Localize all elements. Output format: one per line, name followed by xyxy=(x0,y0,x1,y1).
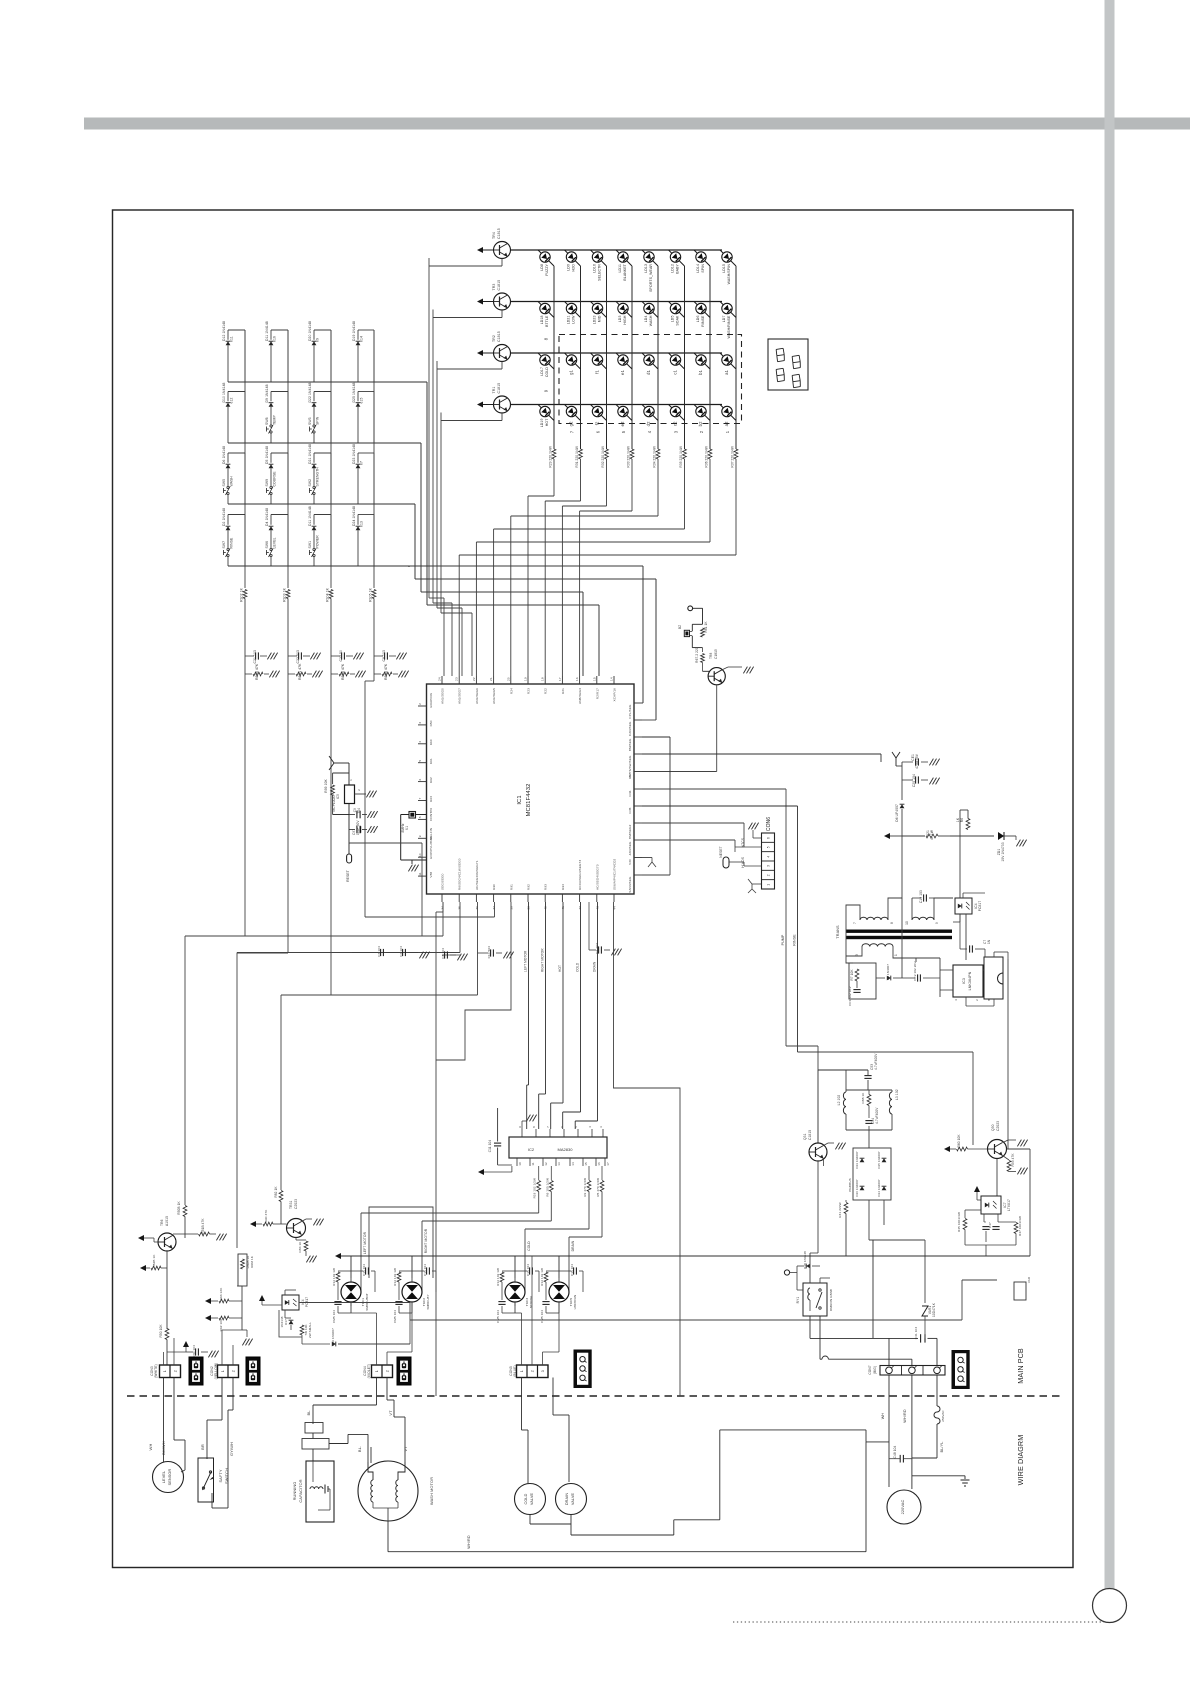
TR6 emitter down xyxy=(166,1251,168,1329)
resistor R41 22 2W xyxy=(845,1200,847,1202)
svg-text:R12 102 1W: R12 102 1W xyxy=(393,1268,397,1286)
svg-text:13: 13 xyxy=(557,1162,561,1166)
trunk wires from key columns under IC1 xyxy=(185,935,443,937)
svg-text:R92: R92 xyxy=(527,884,531,890)
diode D6 UF4007 xyxy=(901,780,903,800)
svg-text:WASH: WASH xyxy=(649,315,653,326)
svg-text:R83B 47K: R83B 47K xyxy=(384,663,388,680)
svg-text:D20 1N4148: D20 1N4148 xyxy=(308,321,312,341)
arrows with resistors R63 R62 xyxy=(205,1298,211,1304)
resistor R99 10K pullup loop xyxy=(333,772,349,774)
svg-text:f1: f1 xyxy=(595,369,600,373)
svg-text:JAN/SEG: JAN/SEG xyxy=(628,841,632,855)
svg-text:R36 220 1/4W: R36 220 1/4W xyxy=(705,446,709,468)
varistor lead join xyxy=(872,1240,874,1338)
svg-text:3: 3 xyxy=(418,722,422,724)
svg-text:R303 1K: R303 1K xyxy=(283,587,287,602)
LED driver transistor TR4 xyxy=(477,247,483,253)
IC2 bottom pin 14 xyxy=(569,1158,571,1166)
svg-text:R62: R62 xyxy=(429,777,433,783)
svg-text:SW6: SW6 xyxy=(265,541,269,549)
svg-text:21: 21 xyxy=(489,677,493,681)
IC2 bottom pin 10 xyxy=(516,1158,518,1166)
key cell diode D4 1N4148 row4 col2 xyxy=(271,514,288,516)
svg-text:TEMP: TEMP xyxy=(273,415,277,425)
svg-text:MAIN PCB: MAIN PCB xyxy=(1016,1348,1025,1384)
svg-text:Q31: Q31 xyxy=(803,1133,807,1140)
svg-text:SPIN: SPIN xyxy=(316,416,320,425)
svg-text:R80N 47K: R80N 47K xyxy=(298,663,302,680)
svg-text:10: 10 xyxy=(418,853,422,857)
transistor TR6 A1015 level sensor osc xyxy=(158,1233,176,1251)
key cell diode D12 1N4148 row1 col1 xyxy=(228,329,245,331)
svg-text:9: 9 xyxy=(544,389,549,392)
svg-text:1: 1 xyxy=(375,1370,379,1372)
secondary loop wires xyxy=(846,950,862,956)
hline Q30 to vertical xyxy=(1007,1148,1031,1150)
LED b2 row4 col7 xyxy=(696,406,706,416)
switcher IC3 LNK364PN xyxy=(953,965,983,997)
svg-text:e12: e12 xyxy=(230,398,234,404)
IC1 right pin 55 xyxy=(634,874,642,876)
svg-text:AN1/SEG7: AN1/SEG7 xyxy=(458,688,462,704)
svg-text:SW2: SW2 xyxy=(308,479,312,487)
page top gray bar xyxy=(84,118,1190,130)
svg-text:1: 1 xyxy=(163,1370,167,1372)
svg-text:SAFTY: SAFTY xyxy=(218,1469,223,1482)
IC1 right pin 61 xyxy=(634,771,642,773)
svg-text:AN8/SEG3: AN8/SEG3 xyxy=(578,688,582,704)
key column 4 line with resistor R305 1K xyxy=(373,330,375,588)
svg-text:R21: R21 xyxy=(561,688,565,694)
svg-text:2: 2 xyxy=(386,1370,390,1372)
svg-text:8C8V8A: 8C8V8A xyxy=(529,1295,533,1308)
RUNNING CAPACITOR xyxy=(306,1461,334,1522)
IC1 right pin 62 xyxy=(634,753,642,755)
resistor R51B 47K xyxy=(185,1233,198,1235)
svg-text:D21 1N4148: D21 1N4148 xyxy=(308,444,312,464)
svg-text:3: 3 xyxy=(674,430,679,433)
IC1 bottom pin 42 xyxy=(579,894,581,902)
IC1 right pin 64 xyxy=(634,719,642,721)
svg-text:1: 1 xyxy=(894,954,898,956)
IC1 right pin 58 xyxy=(634,822,642,824)
Q30 collector ground xyxy=(1003,1140,1008,1143)
svg-text:e1: e1 xyxy=(620,369,625,374)
svg-text:A1015: A1015 xyxy=(165,1216,169,1226)
svg-text:5: 5 xyxy=(767,846,771,848)
resistor R14 at triac xyxy=(502,1270,515,1272)
svg-text:SW1: SW1 xyxy=(308,541,312,549)
svg-text:SW8: SW8 xyxy=(265,417,269,425)
svg-text:LTV817: LTV817 xyxy=(1007,1199,1011,1211)
footer dotted line xyxy=(733,1621,1106,1623)
snubber cap C15 104 at triac xyxy=(351,1270,363,1272)
svg-text:LD5: LD5 xyxy=(671,316,675,323)
LED LD23 row2 col3 xyxy=(592,303,602,313)
svg-text:8: 8 xyxy=(890,922,894,924)
key matrix row lines to IC xyxy=(228,381,427,383)
svg-text:STRENGTH: STRENGTH xyxy=(316,467,320,487)
wire Q30 emitter down xyxy=(996,1159,998,1197)
svg-text:D24 1N4148: D24 1N4148 xyxy=(352,506,356,526)
key cell diode D21 1N4148 row3 col3 xyxy=(314,452,331,454)
svg-text:(VIOLET): (VIOLET) xyxy=(367,1364,371,1379)
svg-text:D12 1N4148: D12 1N4148 xyxy=(222,321,226,341)
svg-text:RY1: RY1 xyxy=(796,1297,800,1304)
svg-text:LD7: LD7 xyxy=(722,316,726,323)
svg-text:R35 220 1/4W: R35 220 1/4W xyxy=(679,446,683,468)
svg-text:R90 47K: R90 47K xyxy=(264,1209,268,1223)
svg-text:CPL/SEG: CPL/SEG xyxy=(628,704,632,719)
svg-text:e15: e15 xyxy=(360,398,364,404)
wires IC1 right pins to CON6 xyxy=(642,822,744,824)
svg-text:a1: a1 xyxy=(724,369,729,374)
thermal fuse xyxy=(934,1406,940,1424)
LED LD7 row2 col8 xyxy=(722,303,732,313)
svg-text:C30 104: C30 104 xyxy=(192,1345,196,1358)
resistor R67 220 xyxy=(702,648,704,652)
svg-text:8: 8 xyxy=(532,1126,536,1128)
svg-text:1: 1 xyxy=(767,884,771,886)
svg-text:470u 35V: 470u 35V xyxy=(915,753,919,769)
LEVEL SENSOR xyxy=(153,1462,184,1493)
svg-text:17: 17 xyxy=(558,677,562,681)
IC5 ground pin2 xyxy=(355,793,367,795)
svg-text:D19 1N4148: D19 1N4148 xyxy=(352,321,356,341)
svg-text:COLD: COLD xyxy=(576,962,580,972)
tact switch SW5 WASH xyxy=(227,486,229,488)
svg-text:23: 23 xyxy=(455,677,459,681)
IC1 right pin 59 xyxy=(634,805,642,807)
LED LD18 row2 col1 xyxy=(540,303,550,313)
wire IC3 to lower section xyxy=(1007,959,1009,1149)
svg-text:1K: 1K xyxy=(956,817,960,822)
IC1 top pin 19 xyxy=(527,676,529,684)
svg-text:9: 9 xyxy=(935,922,939,924)
IC1 top pin 23 xyxy=(458,676,460,684)
svg-text:CM5 104: CM5 104 xyxy=(496,1310,500,1323)
svg-text:L3 102: L3 102 xyxy=(895,1089,899,1100)
key cell diode D22 1N4148 row2 col3 xyxy=(314,391,331,393)
svg-text:R63 12K: R63 12K xyxy=(219,1287,223,1301)
svg-text:R80B 47K: R80B 47K xyxy=(255,663,259,680)
svg-text:VT: VT xyxy=(403,1446,408,1452)
svg-text:R50: R50 xyxy=(429,720,433,726)
svg-text:R5 470 1/4W: R5 470 1/4W xyxy=(596,1178,600,1197)
svg-text:R2/R17: R2/R17 xyxy=(595,688,599,699)
wire WH from CON7 xyxy=(888,1375,890,1487)
IC1 bottom pin 39 xyxy=(527,894,529,902)
svg-text:BL: BL xyxy=(306,1410,311,1416)
svg-text:R41 222W: R41 222W xyxy=(838,1202,842,1217)
IC1 bottom pin 37 xyxy=(493,894,495,902)
svg-text:HOT: HOT xyxy=(545,418,549,426)
resistor R84 1K below TR31 xyxy=(295,1238,297,1241)
svg-text:e13: e13 xyxy=(360,521,364,527)
electrolytic C54 4.7uF 400V xyxy=(865,1120,872,1122)
svg-text:TR4: TR4 xyxy=(492,232,496,239)
svg-text:LEVEL: LEVEL xyxy=(162,1471,166,1483)
svg-text:H.VOS: H.VOS xyxy=(741,856,745,867)
IC1 top pin 14 xyxy=(613,676,615,684)
LED b1 row3 col7 xyxy=(696,355,706,365)
svg-text:TRANS: TRANS xyxy=(836,925,840,939)
svg-text:V20: V20 xyxy=(628,859,632,865)
svg-text:R37 220 1/4W: R37 220 1/4W xyxy=(731,446,735,468)
svg-text:D25 1N4148: D25 1N4148 xyxy=(352,382,356,402)
svg-text:HOT: HOT xyxy=(558,965,562,972)
svg-text:8: 8 xyxy=(544,337,549,340)
svg-text:4.7uF400V: 4.7uF400V xyxy=(874,1053,878,1070)
svg-text:R82 1K: R82 1K xyxy=(274,1186,278,1198)
220VAC source xyxy=(887,1490,921,1524)
LED c2 row4 col6 xyxy=(670,406,680,416)
svg-text:C15 104: C15 104 xyxy=(423,1264,427,1276)
IC2 bottom pin 13 xyxy=(555,1158,557,1166)
LED LD21 row2 col2 xyxy=(566,303,576,313)
IC1 left pin 3 xyxy=(418,724,427,726)
svg-text:104: 104 xyxy=(357,808,361,814)
wires to trunk xyxy=(965,1244,1016,1246)
svg-text:XCAP/16: XCAP/16 xyxy=(613,688,617,702)
svg-text:PUMP: PUMP xyxy=(781,934,785,945)
key cell diode D11 1N4148 row4 col3 xyxy=(314,514,331,516)
svg-text:R29 220 1/4W: R29 220 1/4W xyxy=(549,446,553,468)
svg-text:WH: WH xyxy=(148,1444,153,1451)
LED matrix column vertical lines xyxy=(553,266,555,449)
svg-text:1: 1 xyxy=(520,1370,524,1372)
svg-text:R50 10K: R50 10K xyxy=(159,1324,163,1338)
snubber cap C16 104 at triac xyxy=(412,1270,424,1272)
svg-text:C3 104: C3 104 xyxy=(377,946,381,957)
svg-text:4: 4 xyxy=(767,856,771,858)
svg-text:g1: g1 xyxy=(569,369,574,374)
page number circle xyxy=(1093,1589,1127,1623)
svg-text:AN1/SEG0: AN1/SEG0 xyxy=(441,688,445,704)
svg-text:C4 104: C4 104 xyxy=(399,946,403,957)
svg-text:TR31: TR31 xyxy=(289,1200,293,1209)
page right gray bar xyxy=(1105,0,1115,1589)
IC2 top pin 5 xyxy=(577,1129,579,1137)
IC1 right pin 57 xyxy=(634,839,642,841)
snubber cap C17 104 at triac xyxy=(515,1270,527,1272)
IC2 ground top xyxy=(521,1121,523,1129)
svg-text:R47 10K1/4W: R47 10K1/4W xyxy=(1018,1216,1022,1236)
LED f2 row4 col3 xyxy=(592,406,602,416)
IC2 bottom pin 15 xyxy=(582,1158,584,1166)
IC1 left pin 7 xyxy=(418,800,427,802)
wires IC1 bottom to IC2 - motor/valve control xyxy=(528,902,530,1000)
resistor R82B 47K xyxy=(331,673,338,675)
svg-text:C11 104: C11 104 xyxy=(488,1140,492,1153)
svg-text:R45 10K1/4W: R45 10K1/4W xyxy=(957,1212,961,1232)
svg-text:R81 1K: R81 1K xyxy=(704,621,708,633)
svg-text:4.7uF400V: 4.7uF400V xyxy=(875,1107,879,1124)
svg-text:C21 103: C21 103 xyxy=(253,650,257,664)
wire reset node right xyxy=(348,830,350,844)
svg-text:VALVE: VALVE xyxy=(530,1493,534,1506)
capacitors C47 103 xyxy=(983,1214,985,1222)
arrow + capacitor C30 104 xyxy=(183,1341,189,1347)
svg-text:LNK364PN: LNK364PN xyxy=(968,971,972,990)
wire VT from CON4 xyxy=(386,1378,388,1401)
svg-text:R62 10K: R62 10K xyxy=(219,1318,223,1332)
wire GY/WH xyxy=(232,1378,234,1411)
resistor R88 1K xyxy=(867,1095,871,1106)
wire IC1 pin to display/keys xyxy=(642,736,670,738)
LED LD17 row3 col1 xyxy=(540,355,550,365)
svg-text:C1815: C1815 xyxy=(497,280,501,291)
inductor L2 xyxy=(845,1070,847,1092)
wire WH from CON3 xyxy=(163,1378,165,1449)
LED LD4 row2 col5 xyxy=(644,303,654,313)
svg-text:10: 10 xyxy=(905,921,909,925)
svg-text:FUZZY: FUZZY xyxy=(545,263,549,275)
svg-text:MID: MID xyxy=(598,315,602,322)
svg-text:C19 103: C19 103 xyxy=(919,890,923,903)
svg-text:LEVEL: LEVEL xyxy=(273,537,277,548)
staircase from IC bottom right to lower right xyxy=(580,902,582,905)
IC1 right pin 60 xyxy=(634,788,642,790)
svg-text:4: 4 xyxy=(588,1126,592,1128)
svg-text:7: 7 xyxy=(570,430,575,433)
capacitor C23 50 xyxy=(331,655,340,657)
snubber cap C18 104 at triac xyxy=(559,1270,571,1272)
svg-text:RIGHT MOTOR: RIGHT MOTOR xyxy=(424,1228,428,1253)
svg-text:R90: R90 xyxy=(492,884,496,890)
tact switch SW8 TEMP xyxy=(270,425,272,427)
IC1 top pin 15 xyxy=(596,676,598,684)
svg-text:HIGH: HIGH xyxy=(623,315,627,325)
IC2 bottom pin 12 xyxy=(542,1158,544,1166)
wire key row 2 to IC pin xyxy=(420,443,422,592)
capacitor C41b 104 on AC line xyxy=(920,1334,922,1342)
triac TRC1 xyxy=(350,1256,352,1278)
svg-text:LD19: LD19 xyxy=(540,419,544,428)
svg-text:R2 470 1/4W: R2 470 1/4W xyxy=(583,1178,587,1197)
schematic border frame xyxy=(113,210,1074,1568)
svg-text:CC1 102 1KV: CC1 102 1KV xyxy=(848,986,852,1005)
svg-text:C20 104: C20 104 xyxy=(912,774,916,787)
LED LD12 row1 col6 xyxy=(670,252,680,262)
LED c1 row3 col6 xyxy=(670,355,680,365)
box resistor R60B near door xyxy=(238,1254,247,1286)
svg-text:9: 9 xyxy=(518,1126,522,1128)
svg-text:IC5: IC5 xyxy=(336,794,340,799)
svg-text:LD11: LD11 xyxy=(618,264,622,273)
IC1 top pin 22 xyxy=(475,676,477,684)
svg-text:SM8CU8Y: SM8CU8Y xyxy=(426,1294,430,1309)
resistor R83B 47K xyxy=(374,673,381,675)
svg-text:RINSE: RINSE xyxy=(701,315,705,327)
IC2 bottom pin 16 xyxy=(595,1158,597,1166)
svg-text:R60 10K: R60 10K xyxy=(957,1134,961,1148)
svg-text:C15 104: C15 104 xyxy=(362,1264,366,1276)
key cell diode D9 1N4148 row2 col2 xyxy=(271,391,288,393)
svg-text:COLD: COLD xyxy=(527,1241,531,1251)
tact switch SW9 COURSE xyxy=(270,486,272,488)
svg-text:LOW: LOW xyxy=(572,315,576,324)
svg-text:2: 2 xyxy=(174,1370,178,1372)
svg-text:AC/SEG4/SEG73: AC/SEG4/SEG73 xyxy=(595,864,599,890)
svg-text:D19 1N4007: D19 1N4007 xyxy=(331,1328,335,1346)
svg-text:R93 47K: R93 47K xyxy=(1011,1153,1015,1167)
svg-text:IC3: IC3 xyxy=(962,978,966,984)
diode D19 1N4007 xyxy=(332,1342,336,1347)
svg-text:b1: b1 xyxy=(698,369,703,374)
svg-text:CONTP6: CONTP6 xyxy=(429,808,433,821)
svg-text:1N: 1N xyxy=(987,939,991,944)
ground near CON2 xyxy=(242,1329,247,1331)
transistor TR31 C2023 door xyxy=(287,1219,306,1238)
svg-text:D18 1N4148: D18 1N4148 xyxy=(803,1251,807,1269)
LED g2 row4 col2 xyxy=(566,406,576,416)
LED LD19 row4 col1 xyxy=(540,406,550,416)
LED LD6 row2 col7 xyxy=(696,303,706,313)
svg-text:C41 104: C41 104 xyxy=(914,1327,918,1340)
key column trunks down-left xyxy=(244,674,246,936)
resistor R81 1K xyxy=(701,628,705,637)
svg-text:VT: VT xyxy=(388,1410,393,1416)
svg-text:DRAIN: DRAIN xyxy=(593,961,597,972)
relay RY1 xyxy=(803,1283,827,1316)
wire IC1 right pins join xyxy=(642,702,643,704)
svg-text:NESET: NESET xyxy=(719,846,723,858)
svg-text:8: 8 xyxy=(987,999,991,1001)
svg-text:b2: b2 xyxy=(698,421,703,426)
LED row 4 wire xyxy=(511,404,723,406)
svg-text:RUNNING: RUNNING xyxy=(292,1482,297,1501)
LED LD8 row1 col1 xyxy=(540,252,550,262)
svg-text:TR8: TR8 xyxy=(709,653,713,659)
svg-text:X1: X1 xyxy=(405,826,409,830)
svg-text:D17: D17 xyxy=(284,1319,288,1325)
capacitor C10 564 xyxy=(478,952,489,954)
resistor R12 at triac xyxy=(338,1270,351,1272)
svg-text:C8 103: C8 103 xyxy=(382,650,386,662)
IC1 bottom pin 35 xyxy=(458,894,460,902)
IC1 left pin 4 xyxy=(418,743,427,745)
IC1 bottom pin 36 xyxy=(475,894,477,902)
optocoupler IC7 LTV817 xyxy=(974,1186,980,1192)
vertical x1030 to trunk xyxy=(1029,1149,1031,1256)
svg-text:D5 1N4007: D5 1N4007 xyxy=(886,964,890,980)
IC1 left pin 2 xyxy=(418,705,427,707)
svg-text:e9: e9 xyxy=(316,338,320,342)
svg-text:R18 102 1/2W: R18 102 1/2W xyxy=(533,1178,537,1198)
svg-text:C22 503: C22 503 xyxy=(296,650,300,664)
svg-text:8: 8 xyxy=(418,816,422,818)
svg-text:RINSE: RINSE xyxy=(793,934,797,946)
svg-text:SAN3/SEG: SAN3/SEG xyxy=(628,876,632,893)
svg-text:R23: R23 xyxy=(527,688,531,694)
wire key row 4 to IC right pin via x643 xyxy=(408,565,410,567)
svg-text:e16: e16 xyxy=(273,336,277,342)
IC2 top pin 7 xyxy=(549,1129,551,1137)
svg-text:d1: d1 xyxy=(646,369,651,374)
svg-text:SPIN: SPIN xyxy=(701,264,705,273)
svg-text:6: 6 xyxy=(560,1126,564,1128)
svg-text:R94: R94 xyxy=(561,884,565,890)
svg-text:GY/WH: GY/WH xyxy=(229,1442,234,1456)
transistor Q30 C2023 xyxy=(988,1140,1007,1159)
svg-text:AN1/SEG6: AN1/SEG6 xyxy=(475,688,479,704)
svg-text:10D471K: 10D471K xyxy=(932,1302,936,1317)
LED driver transistor TR2 xyxy=(477,350,483,356)
svg-text:R12 102 1W: R12 102 1W xyxy=(540,1268,544,1286)
12V rail arrow xyxy=(884,833,890,839)
